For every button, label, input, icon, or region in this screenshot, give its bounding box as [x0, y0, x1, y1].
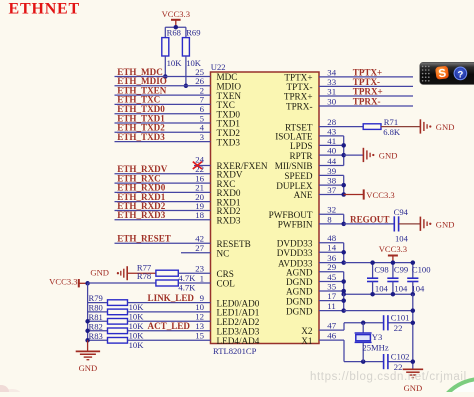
wire bus pins 32/8 PWFB: [343, 214, 345, 224]
svg-text:R83: R83: [89, 331, 103, 341]
pin 30 TPRX- stub: [319, 105, 413, 107]
svg-text:LED4/AD4: LED4/AD4: [217, 336, 260, 346]
svg-text:TPTX+: TPTX+: [353, 68, 382, 78]
svg-text:33: 33: [327, 77, 336, 87]
svg-text:18: 18: [195, 210, 204, 220]
svg-text:10K: 10K: [129, 330, 145, 340]
svg-text:DGND: DGND: [286, 277, 313, 287]
svg-text:43: 43: [327, 126, 336, 136]
svg-text:6.8K: 6.8K: [383, 127, 401, 137]
svg-text:TPRX+: TPRX+: [353, 87, 383, 97]
capacitor C94 104: [393, 216, 395, 231]
svg-text:CRS: CRS: [217, 269, 234, 279]
svg-text:13: 13: [195, 321, 204, 331]
pin 46 X1 stub: [319, 339, 344, 341]
svg-text:45: 45: [327, 272, 336, 282]
svg-text:SPEED: SPEED: [284, 171, 312, 181]
wire cap ground bus: [344, 293, 413, 295]
svg-text:104: 104: [411, 283, 425, 293]
capacitor C102 22: [383, 354, 385, 369]
junction cap bus to AGND bus: [341, 292, 346, 297]
svg-text:48: 48: [327, 233, 336, 243]
junction VCC3.3/R68/R69: [174, 25, 179, 30]
pin 19 RXD2 / net ETH_RXD2 wire: [115, 210, 211, 212]
ground GND (right of R71): [419, 119, 421, 133]
svg-text:TPRX-: TPRX-: [353, 97, 381, 107]
resistor R79 10K on pin 9 LED0/AD0: [88, 302, 108, 304]
pin 35 AGND stub: [319, 290, 344, 292]
junction ground/C101: [411, 321, 416, 326]
smudge bottom-left: [0, 385, 9, 397]
svg-text:47: 47: [327, 321, 336, 331]
svg-text:REGOUT: REGOUT: [350, 214, 389, 224]
junction pin11: [341, 308, 346, 313]
junction R68 to ETH_MDC: [163, 74, 168, 79]
svg-text:104: 104: [394, 283, 408, 293]
svg-text:27: 27: [195, 243, 204, 253]
svg-text:RPTR: RPTR: [290, 151, 314, 161]
svg-text:29: 29: [327, 262, 336, 272]
junction pin8: [341, 222, 346, 227]
pin 6 TXD0 / net ETH_TXD0 wire: [115, 113, 211, 115]
svg-text:GND: GND: [79, 363, 98, 373]
svg-text:GND: GND: [379, 151, 398, 161]
svg-text:GND: GND: [90, 268, 109, 278]
wire X1 net bottom: [344, 361, 384, 363]
wire pin46 down: [343, 340, 345, 362]
resistor R83 10K on pin 15 LED4/AD4: [88, 339, 108, 341]
svg-text:MII/SNIB: MII/SNIB: [275, 161, 313, 171]
svg-text:37: 37: [327, 185, 336, 195]
pin 2 TXEN / net ETH_TXEN wire: [115, 94, 211, 96]
junction pin17: [341, 298, 346, 303]
pin 41 LPDS stub: [319, 144, 344, 146]
pin 18 RXD3 / net ETH_RXD3 wire: [115, 219, 211, 221]
pin 44 MII/SNIB stub: [319, 165, 344, 167]
pin 40 RPTR stub: [319, 154, 344, 156]
junction bus/R82: [85, 329, 90, 334]
wire R71 to GND: [381, 126, 420, 128]
power VCC3.3 (SPEED/DUPLEX/ANE straps): [344, 194, 364, 196]
wire to GND (isolate group): [344, 154, 364, 156]
pin 29 AGND stub: [319, 271, 344, 273]
pin 38 DUPLEX stub: [319, 184, 344, 186]
junction ground/C102: [411, 359, 416, 364]
svg-text:ETH_RXD3: ETH_RXD3: [117, 210, 165, 220]
svg-text:12: 12: [195, 312, 204, 322]
pin 32 PWFBOUT stub: [319, 213, 344, 215]
wire X2 net top: [344, 322, 384, 324]
svg-text:C99: C99: [394, 265, 408, 275]
pin 28 RTSET stub: [319, 126, 363, 128]
pin 8 PWFBIN stub: [319, 223, 344, 225]
svg-text:X2: X2: [301, 326, 313, 336]
capacitor C101 22: [383, 315, 385, 330]
pin 36 AVDD33 stub: [319, 262, 344, 264]
pin 5 TXD1 / net ETH_TXD1 wire: [115, 122, 211, 124]
svg-text:GND: GND: [436, 219, 455, 229]
svg-text:14: 14: [327, 243, 336, 253]
svg-text:ACT_LED: ACT_LED: [148, 321, 191, 331]
svg-text:30: 30: [327, 96, 336, 106]
svg-text:44: 44: [327, 156, 336, 166]
wire GND to R77: [128, 272, 156, 274]
svg-text:VCC3.3: VCC3.3: [162, 9, 190, 19]
IC U22 RTL8201CP body: [211, 72, 320, 344]
svg-text:15: 15: [195, 331, 204, 341]
pin 34 TPTX+ stub: [319, 76, 413, 78]
pin 16 RXC / net ETH_RXC wire: [115, 182, 211, 184]
svg-text:AGND: AGND: [286, 287, 313, 297]
pin 45 DGND stub: [319, 281, 344, 283]
pin 7 TXC / net ETH_TXC wire: [115, 103, 211, 105]
svg-text:3: 3: [200, 132, 205, 142]
wire bus pins 48/14/36 power: [343, 243, 345, 263]
svg-text:TPTX+: TPTX+: [284, 73, 312, 83]
pin 17 DGND stub: [319, 300, 344, 302]
svg-text:R71: R71: [384, 117, 398, 127]
capacitor C100 104: [412, 263, 414, 279]
pin 43 ISOLATE stub: [319, 135, 344, 137]
junction C99 top: [391, 260, 396, 265]
junction crystal top: [361, 321, 366, 326]
svg-text:11: 11: [327, 301, 335, 311]
pin 21 RXD0 / net ETH_RXD0 wire: [115, 191, 211, 193]
junction ground/DGND: [411, 308, 416, 313]
svg-text:LINK_LED: LINK_LED: [148, 293, 195, 303]
svg-text:C102: C102: [391, 351, 410, 361]
svg-text:GND: GND: [404, 383, 423, 392]
svg-text:C101: C101: [391, 312, 410, 322]
svg-text:DVDD33: DVDD33: [277, 248, 313, 258]
svg-text:GND: GND: [436, 122, 455, 132]
svg-text:VCC3.3: VCC3.3: [366, 190, 394, 200]
svg-text:?: ?: [457, 69, 463, 80]
svg-text:4.7K: 4.7K: [178, 283, 196, 293]
svg-text:10K: 10K: [129, 340, 145, 350]
svg-text:22: 22: [394, 323, 403, 333]
svg-text:RXER/FXEN: RXER/FXEN: [217, 161, 268, 171]
wire DGND bus to main ground: [344, 310, 413, 312]
pin 26 MDIO / net ETH_MDIO wire: [115, 85, 211, 87]
svg-text:PWFBOUT: PWFBOUT: [269, 210, 313, 220]
svg-text:31: 31: [327, 86, 336, 96]
pin 3 TXD3 / net ETH_TXD3 wire: [115, 141, 211, 143]
resistor R69 10K (MDIO pull-up): [185, 27, 187, 37]
toolbar help icon: [454, 67, 467, 80]
svg-text:25MHz: 25MHz: [362, 342, 388, 352]
junction pin37: [341, 192, 346, 197]
wire main ground vertical: [412, 294, 414, 369]
junction C100 top: [411, 260, 416, 265]
resistor R71 6.8K on RTSET: [363, 124, 381, 130]
pin 48 DVDD33 stub: [319, 242, 344, 244]
svg-text:R69: R69: [186, 28, 200, 38]
pin 27 NC stub: [181, 252, 211, 254]
pin 11 DGND stub: [319, 310, 344, 312]
svg-text:DVDD33: DVDD33: [277, 239, 313, 249]
svg-text:C94: C94: [394, 207, 409, 217]
junction VCC3.3 / R78 / LED resistor bus: [85, 281, 90, 286]
svg-text:U22: U22: [211, 62, 226, 72]
ground GND (ISOLATE/LPDS/RPTR/MII group): [362, 148, 364, 162]
resistor R77 4.7K: [156, 270, 178, 276]
svg-text:ISOLATE: ISOLATE: [275, 132, 313, 142]
svg-text:COL: COL: [217, 279, 236, 289]
svg-text:NC: NC: [217, 249, 230, 259]
svg-text:ETH_TXD3: ETH_TXD3: [117, 132, 165, 142]
ground GND (left, to R77): [126, 266, 128, 280]
junction C98 top: [370, 260, 375, 265]
svg-text:R82: R82: [89, 321, 103, 331]
pin 1 COL wire: [178, 282, 210, 284]
svg-text:34: 34: [327, 67, 336, 77]
pin 4 TXD2 / net ETH_TXD2 wire: [115, 131, 211, 133]
wire bus AGND/DGND pins 29/45/35/17/11: [343, 272, 345, 311]
svg-text:X1: X1: [301, 336, 313, 346]
pin 14 DVDD33 stub: [319, 251, 344, 253]
ground GND (bottom right): [403, 368, 423, 370]
junction pin38: [341, 183, 346, 188]
svg-text:10K: 10K: [167, 58, 183, 68]
svg-text:TPTX-: TPTX-: [353, 77, 380, 87]
resistor R82 10K on pin 13 LED3/AD3: [88, 330, 108, 332]
svg-text:https://blog.csdn.net/crjmail: https://blog.csdn.net/crjmail: [310, 371, 467, 383]
svg-text:10K: 10K: [129, 321, 145, 331]
ground GND (bottom left of LED ladder): [87, 340, 89, 351]
svg-text:32: 32: [327, 205, 336, 215]
junction pin41: [341, 143, 346, 148]
svg-text:DGND: DGND: [286, 306, 313, 316]
junction crystal bottom: [361, 359, 366, 364]
pin 23 CRS wire: [178, 272, 210, 274]
svg-text:TPRX-: TPRX-: [286, 102, 313, 112]
pin 20 RXD1 / net ETH_RXD1 wire: [115, 201, 211, 203]
wire C94 to GND: [399, 223, 421, 225]
svg-text:1: 1: [200, 273, 204, 283]
crystal Y3 25MHz: [362, 323, 364, 333]
svg-text:8: 8: [327, 214, 332, 224]
svg-text:TPTX-: TPTX-: [286, 82, 312, 92]
svg-text:C98: C98: [374, 265, 388, 275]
pin 31 TPRX+ stub: [319, 95, 413, 97]
svg-text:RTL8201CP: RTL8201CP: [213, 346, 257, 356]
junction C98 bottom: [370, 292, 375, 297]
svg-text:Y3: Y3: [372, 332, 383, 342]
svg-text:LPDS: LPDS: [290, 141, 312, 151]
svg-text:LED3/AD3: LED3/AD3: [217, 327, 260, 337]
svg-text:R81: R81: [89, 312, 103, 322]
wire pin47 to X2 net: [343, 323, 345, 330]
svg-text:AGND: AGND: [286, 267, 313, 277]
no-connect X on pin 24: [193, 162, 202, 169]
junction pin14: [341, 250, 346, 255]
toolbar S logo: [435, 66, 449, 81]
svg-text:40: 40: [327, 146, 336, 156]
resistor R81 10K on pin 12 LED2/AD2: [88, 320, 108, 322]
wire bus pins 39/38/37: [343, 175, 345, 194]
svg-text:VCC3.3: VCC3.3: [379, 244, 407, 254]
resistor R80 10K on pin 10 LED1/AD1: [88, 311, 108, 313]
svg-text:39: 39: [327, 166, 336, 176]
green circle logo fragment (bottom right): [435, 379, 474, 397]
svg-text:TPRX+: TPRX+: [284, 92, 313, 102]
pin 37 ANE stub: [319, 194, 344, 196]
pin 42 RESETB / net ETH_RESET wire: [115, 242, 211, 244]
svg-text:RESETB: RESETB: [217, 239, 251, 249]
junction bus/R81: [85, 319, 90, 324]
svg-text:TXD3: TXD3: [217, 137, 241, 147]
junction C99 bottom: [391, 292, 396, 297]
ground GND (C94): [419, 217, 421, 231]
svg-text:23: 23: [195, 264, 204, 274]
svg-text:42: 42: [195, 234, 204, 244]
resistor R78 4.7K: [156, 280, 178, 286]
svg-text:R78: R78: [137, 271, 151, 281]
pin 22 RXDV / net ETH_RXDV wire: [115, 173, 211, 175]
resistor R68 10K (MDC pull-up): [164, 27, 166, 37]
junction bus/R83: [85, 338, 90, 343]
pin 25 MDC / net ETH_MDC wire: [115, 76, 211, 78]
svg-text:17: 17: [327, 291, 336, 301]
svg-text:VCC3.3: VCC3.3: [49, 277, 77, 287]
pin 33 TPTX- stub: [319, 85, 413, 87]
svg-text:PWFBIN: PWFBIN: [278, 220, 313, 230]
junction pin40: [341, 153, 346, 158]
pin 39 SPEED stub: [319, 174, 344, 176]
capacitor C99 104: [392, 263, 394, 279]
wire bus pins 43/41/40/44: [343, 136, 345, 166]
junction pin35: [341, 289, 346, 294]
svg-text:46: 46: [327, 331, 336, 341]
wire VCC3.3 to R78: [88, 282, 156, 284]
junction pin45: [341, 279, 346, 284]
svg-text:C100: C100: [412, 265, 431, 275]
svg-text:R68: R68: [167, 28, 181, 38]
net label REGOUT wire: [344, 223, 395, 225]
junction R69 to ETH_MDIO: [184, 84, 189, 89]
svg-text:104: 104: [375, 283, 389, 293]
svg-text:RXD3: RXD3: [217, 216, 241, 226]
pin 47 X2 stub: [319, 329, 344, 331]
junction C100 bottom: [411, 292, 416, 297]
svg-text:DGND: DGND: [286, 296, 313, 306]
wire VCC3.3 to R68/R69 tops: [165, 26, 186, 28]
svg-text:104: 104: [395, 233, 409, 243]
wire LED resistor bus vertical: [87, 283, 89, 340]
wire AVDD33 net to decoupling caps: [344, 262, 413, 264]
capacitor C98 104: [372, 263, 374, 279]
svg-text:ANE: ANE: [294, 190, 313, 200]
svg-text:41: 41: [327, 136, 336, 146]
pin 24 RXER/FXEN no-connect stub: [194, 165, 211, 167]
svg-text:35: 35: [327, 281, 336, 291]
svg-text:LED2/AD2: LED2/AD2: [217, 317, 260, 327]
junction pin36: [341, 260, 346, 265]
svg-text:ETH_RESET: ETH_RESET: [117, 234, 171, 244]
svg-text:ETHNET: ETHNET: [9, 1, 81, 18]
